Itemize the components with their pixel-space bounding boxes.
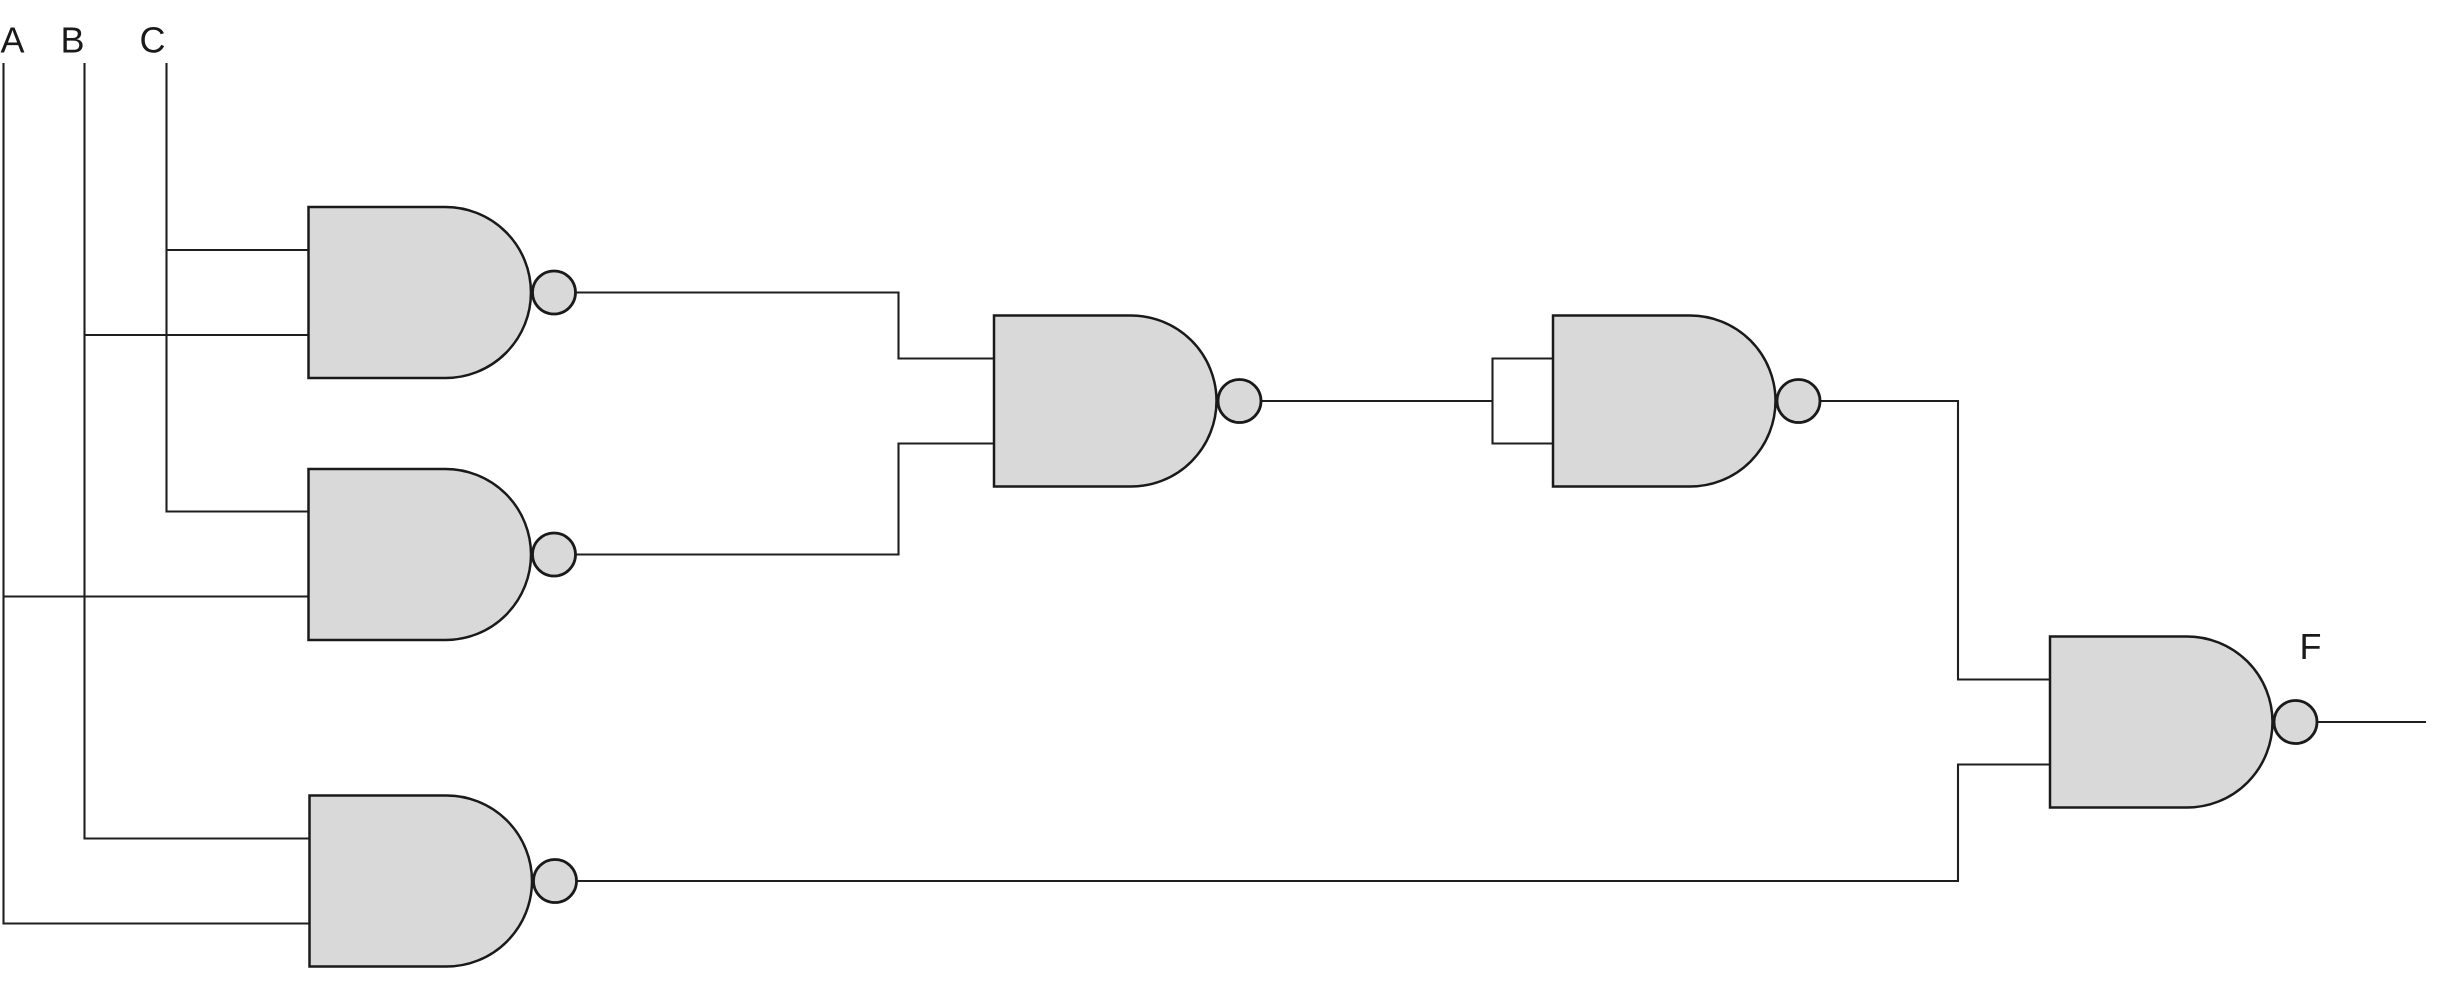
nand gate G2 body (309, 469, 532, 640)
nand gate G6 body (2050, 637, 2273, 808)
wire C branch to G1 upper input (167, 249, 310, 251)
wire C branch to G2 upper input (167, 510, 310, 512)
wire G5 output to G6 upper input (1821, 401, 2050, 680)
nand gate G4 bubble (1218, 380, 1261, 423)
wire B branch to G1 lower input (85, 334, 310, 336)
wire A branch to G3 lower input (4, 922, 310, 924)
nand gate G4 body (994, 316, 1217, 487)
wire G5 input tie loop (1493, 359, 1554, 444)
nand gate G2 bubble (533, 533, 576, 576)
svg-text:B: B (60, 20, 84, 61)
wire A branch to G2 lower input (4, 595, 310, 597)
wire G1 output to G4 upper input (577, 293, 995, 359)
nand gate G1 bubble (533, 271, 576, 314)
wire G2 output to G4 lower input (577, 444, 995, 555)
nand gate G1 body (309, 207, 531, 378)
wire input C vertical (165, 63, 167, 513)
wire G3 output to G6 lower input (577, 765, 2050, 882)
nand gate G5 body (1553, 316, 1776, 487)
nand gate G6 bubble (2274, 701, 2317, 744)
wire G4 output to G5 tied inputs (1262, 400, 1493, 402)
nand gate G5 bubble (1777, 380, 1820, 423)
svg-text:A: A (0, 20, 24, 61)
svg-text:C: C (140, 20, 166, 61)
wire B branch to G3 upper input (85, 837, 310, 839)
wire input A vertical (2, 63, 4, 925)
nand gate G3 body (310, 796, 533, 967)
wire input B vertical (83, 63, 85, 840)
nand gate G3 bubble (534, 860, 577, 903)
svg-text:F: F (2300, 626, 2322, 667)
wire G6 output F (2318, 721, 2426, 723)
